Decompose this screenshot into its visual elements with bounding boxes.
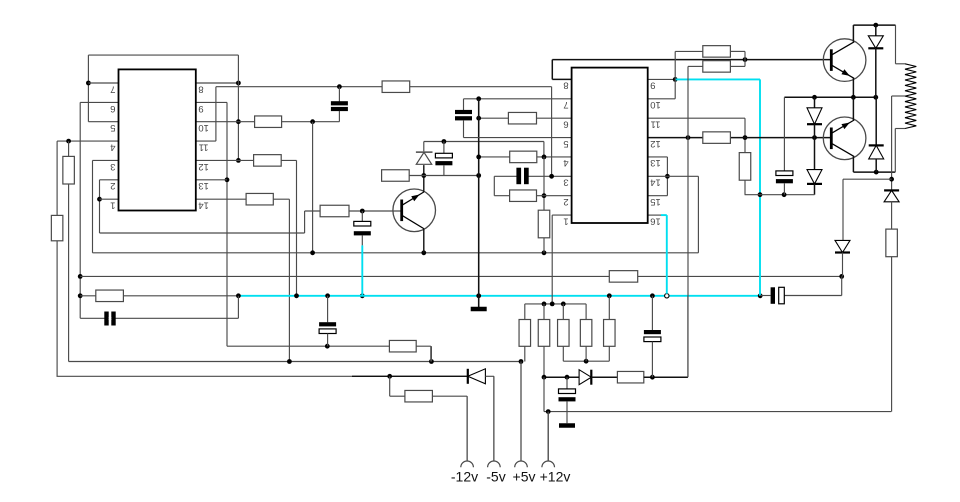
- svg-text:3: 3: [563, 177, 568, 188]
- svg-text:-5v: -5v: [486, 469, 505, 485]
- svg-text:6: 6: [110, 103, 115, 114]
- svg-text:15: 15: [650, 196, 661, 207]
- svg-text:8: 8: [563, 80, 568, 91]
- svg-text:8: 8: [198, 83, 203, 94]
- svg-text:9: 9: [198, 103, 203, 114]
- svg-text:7: 7: [110, 83, 115, 94]
- svg-text:12: 12: [198, 161, 209, 172]
- svg-text:9: 9: [650, 80, 655, 91]
- svg-text:6: 6: [563, 118, 568, 129]
- svg-text:14: 14: [650, 177, 661, 188]
- svg-text:1: 1: [110, 200, 115, 211]
- svg-text:4: 4: [110, 142, 115, 153]
- svg-text:4: 4: [563, 157, 568, 168]
- svg-text:+5v: +5v: [513, 469, 536, 485]
- svg-text:-12v: -12v: [451, 469, 478, 485]
- svg-text:11: 11: [199, 142, 209, 153]
- svg-text:16: 16: [650, 215, 661, 226]
- svg-text:14: 14: [198, 200, 209, 211]
- svg-text:2: 2: [563, 196, 568, 207]
- svg-text:1: 1: [563, 215, 568, 226]
- svg-text:3: 3: [110, 161, 115, 172]
- svg-text:5: 5: [110, 122, 115, 133]
- svg-text:11: 11: [651, 118, 661, 129]
- svg-text:7: 7: [563, 99, 568, 110]
- svg-text:2: 2: [110, 180, 115, 191]
- svg-text:10: 10: [198, 122, 209, 133]
- svg-text:13: 13: [650, 157, 661, 168]
- svg-text:+12v: +12v: [540, 469, 571, 485]
- svg-text:12: 12: [650, 138, 661, 149]
- svg-text:5: 5: [563, 138, 568, 149]
- svg-text:10: 10: [650, 99, 661, 110]
- svg-text:13: 13: [198, 180, 209, 191]
